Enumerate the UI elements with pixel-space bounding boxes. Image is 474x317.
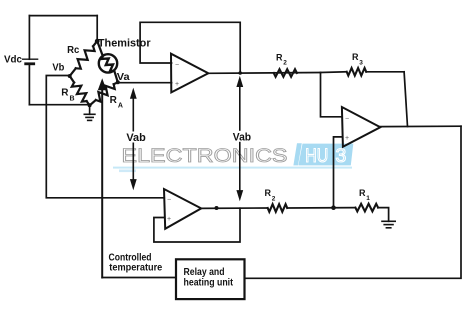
watermark electronics hub logo bbox=[113, 143, 353, 172]
RA wiper arrow / controlled temperature wire bbox=[98, 78, 175, 277]
wire R1 to ground bbox=[378, 208, 389, 222]
svg-text:Rc: Rc bbox=[67, 45, 80, 56]
wire battery top rail to bridge top bbox=[29, 15, 97, 17]
resistor R2 top bbox=[274, 69, 297, 77]
node bridge bottom bbox=[88, 103, 92, 107]
wire R3 feedback down to output bbox=[404, 72, 407, 127]
svg-text:Va: Va bbox=[117, 71, 130, 83]
svg-text:R: R bbox=[265, 188, 272, 198]
wire battery negative to bridge bottom node bbox=[29, 104, 89, 106]
node R1 junction bbox=[331, 205, 336, 210]
wire U3 output rail bbox=[201, 207, 268, 209]
svg-text:1: 1 bbox=[366, 195, 370, 202]
wire bottom rail to R1 bbox=[287, 207, 355, 209]
svg-text:3: 3 bbox=[336, 145, 347, 167]
resistor R3 bbox=[321, 68, 405, 76]
wire Va to opamp1 + input bbox=[118, 82, 172, 84]
svg-text:−: − bbox=[167, 197, 171, 204]
svg-text:HU: HU bbox=[305, 146, 328, 167]
svg-text:A: A bbox=[118, 102, 123, 109]
svg-text:heating unit: heating unit bbox=[184, 277, 234, 288]
wire U1 output bbox=[208, 72, 320, 75]
resistor RB bbox=[70, 76, 90, 106]
relay and heating unit box bbox=[176, 259, 245, 299]
resistor R2 bottom bbox=[268, 204, 288, 212]
resistor Rc bbox=[70, 41, 98, 76]
svg-text:Vdc: Vdc bbox=[4, 55, 22, 66]
node U3 output bbox=[215, 206, 219, 210]
battery Vdc bbox=[23, 16, 38, 105]
resistor R1 bbox=[355, 204, 378, 212]
wire U2 output bbox=[380, 125, 461, 127]
resistor RA potentiometer bbox=[90, 82, 118, 105]
svg-text:2: 2 bbox=[272, 196, 276, 203]
svg-text:+: + bbox=[175, 81, 179, 88]
svg-text:Vab: Vab bbox=[126, 132, 146, 144]
svg-text:Themistor: Themistor bbox=[98, 38, 151, 50]
svg-text:temperature: temperature bbox=[109, 263, 162, 274]
label Vab left bbox=[126, 132, 147, 145]
wire right side down to relay bbox=[245, 126, 462, 278]
svg-text:Vab: Vab bbox=[233, 131, 252, 143]
thermistor bbox=[97, 41, 118, 82]
svg-text:ELECTRONICS: ELECTRONICS bbox=[122, 145, 288, 167]
arrow Vab right bbox=[236, 76, 243, 202]
label Vab right bbox=[232, 131, 253, 144]
op-amp U1 bbox=[171, 54, 208, 93]
svg-text:−: − bbox=[345, 115, 349, 122]
svg-text:2: 2 bbox=[283, 60, 287, 67]
ground (bridge) bbox=[84, 106, 95, 121]
op-amp U2 bbox=[342, 107, 380, 147]
node Vb bbox=[68, 74, 72, 78]
op-amp U3 bbox=[164, 189, 201, 229]
svg-text:R: R bbox=[276, 52, 283, 62]
svg-text:R: R bbox=[359, 188, 366, 198]
svg-text:B: B bbox=[70, 95, 75, 102]
svg-text:+: + bbox=[345, 135, 349, 142]
svg-text:3: 3 bbox=[359, 59, 363, 66]
node Va bbox=[116, 80, 120, 84]
wire Vb branch to lower opamp bbox=[46, 76, 164, 198]
svg-text:−: − bbox=[175, 62, 179, 69]
wire U2 + input to bottom rail bbox=[334, 137, 343, 208]
svg-text:R: R bbox=[61, 88, 69, 99]
ground (R1) bbox=[382, 221, 395, 228]
svg-text:Vb: Vb bbox=[52, 61, 64, 73]
svg-text:+: + bbox=[167, 216, 171, 223]
node top bbox=[95, 39, 100, 44]
wire U1 feedback loop bbox=[140, 22, 240, 73]
arrow Vab left bbox=[130, 88, 137, 191]
wire junction to opamp2 - input bbox=[321, 73, 343, 117]
wire U3 feedback loop bbox=[154, 208, 240, 242]
node U1 feedback junction bbox=[238, 71, 242, 75]
svg-text:R: R bbox=[352, 52, 359, 62]
svg-text:R: R bbox=[110, 95, 118, 106]
wire down to bridge top node bbox=[96, 16, 98, 41]
